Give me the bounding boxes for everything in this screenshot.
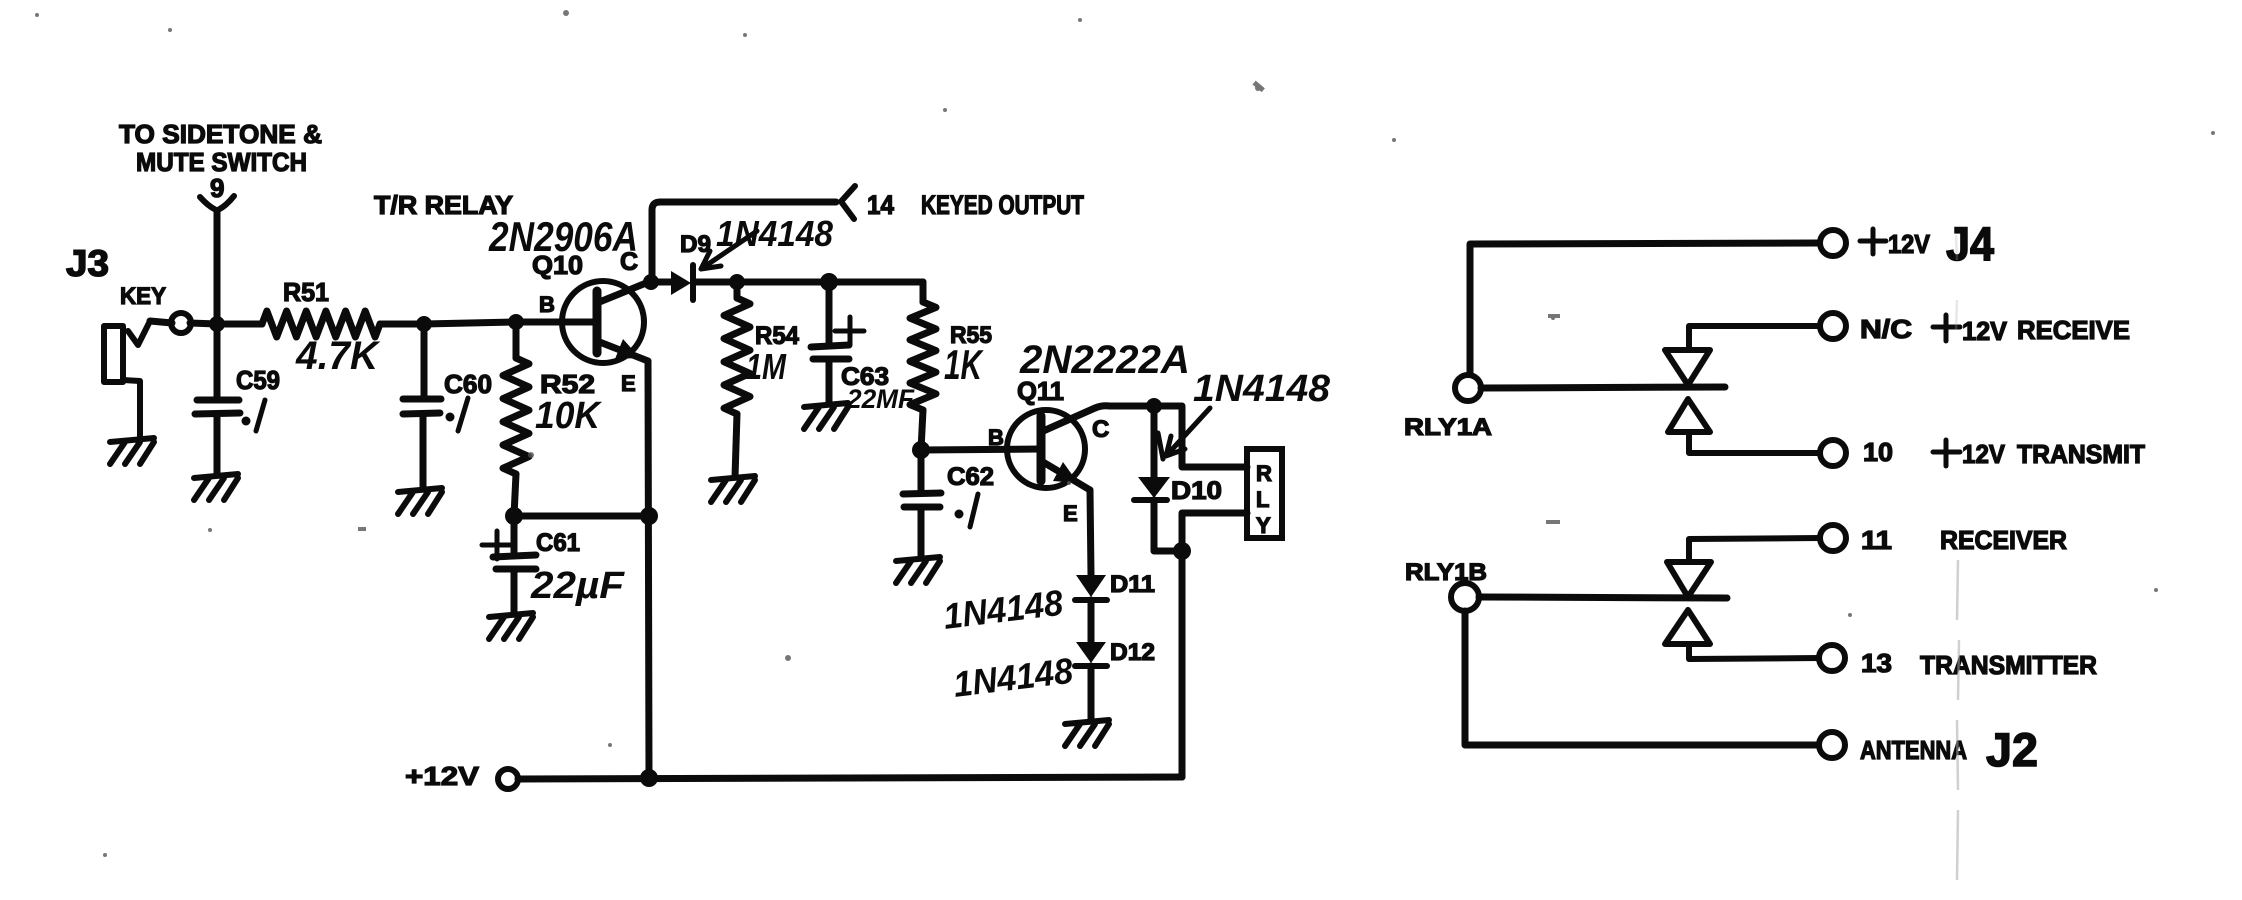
terminal circle 10 <box>1820 440 1846 466</box>
wire jack sleeve to ground <box>123 380 140 438</box>
wire D9 node to C63 and R55 <box>737 279 923 286</box>
capacitor C61 (electrolytic) <box>493 516 536 614</box>
svg-text:Y: Y <box>1256 513 1271 538</box>
svg-text:KEYED OUTPUT: KEYED OUTPUT <box>921 190 1084 220</box>
diode D11 <box>1075 571 1155 642</box>
svg-text:12V: 12V <box>1962 439 2006 469</box>
wire Q10 emitter down to +12V rail <box>648 361 649 778</box>
svg-text:J2: J2 <box>1986 723 2038 776</box>
svg-text:13: 13 <box>1861 648 1892 678</box>
node R54 junction <box>729 274 745 290</box>
svg-text:TO SIDETONE &: TO SIDETONE & <box>119 119 322 149</box>
relay contact RLY1B <box>1451 583 1479 611</box>
svg-text:B: B <box>539 292 555 317</box>
node rail emitter junction <box>640 769 658 787</box>
svg-text:2N2906A: 2N2906A <box>488 213 638 260</box>
wire node to C59 <box>214 324 221 399</box>
diode D9 <box>651 231 737 300</box>
resistor R54 <box>734 282 741 298</box>
terminal circle +12V <box>498 769 518 789</box>
svg-text:+12V: +12V <box>405 761 480 791</box>
svg-text:R51: R51 <box>283 277 329 307</box>
svg-text:B: B <box>988 425 1004 450</box>
svg-text:1K: 1K <box>944 341 984 388</box>
terminal circle +12V J4 <box>1820 230 1846 256</box>
svg-text:12V: 12V <box>1962 316 2008 346</box>
svg-text:4.7K: 4.7K <box>295 334 381 378</box>
ground (C63) <box>804 403 848 429</box>
plus sign (C61) <box>482 531 512 559</box>
svg-text:1M: 1M <box>746 346 787 387</box>
resistor R52 <box>513 322 520 358</box>
wire junction down to +12V rail <box>1179 551 1186 777</box>
node Q11 base junction <box>912 441 930 459</box>
node Q10 collector junction <box>643 274 659 290</box>
wire node to C60 <box>421 324 428 397</box>
connector 14 keyed output <box>841 186 855 219</box>
wire R51 to base node <box>380 322 597 324</box>
svg-text:11: 11 <box>1861 525 1892 555</box>
connector to sidetone (Y symbol) <box>200 196 234 210</box>
wire base to Q11 <box>921 449 1041 450</box>
svg-text:D12: D12 <box>1110 639 1155 666</box>
terminal circle 11 <box>1820 525 1846 551</box>
wire Q11 emitter to D11 <box>1090 490 1091 575</box>
svg-text:N/C: N/C <box>1860 314 1912 344</box>
ground (D12) <box>1065 720 1109 746</box>
relay contact RLY1A <box>1455 375 1481 401</box>
svg-text:D10: D10 <box>1171 477 1222 505</box>
wire transmitter terminal 13 <box>1689 644 1820 659</box>
annotation arrow (D9) <box>701 231 757 269</box>
svg-text:RECEIVER: RECEIVER <box>1940 525 2067 555</box>
wire +12V rail <box>518 777 1182 779</box>
svg-text:C: C <box>1092 416 1109 443</box>
terminal circle 13 <box>1819 645 1845 671</box>
node RLY bottom junction <box>1173 542 1191 560</box>
svg-text:J4: J4 <box>1946 217 1994 270</box>
terminal circle antenna <box>1819 732 1845 758</box>
node C60 junction <box>416 316 432 332</box>
ground (jack) <box>110 438 154 464</box>
svg-text:TRANSMITTER: TRANSMITTER <box>1920 650 2097 680</box>
svg-text:22µF: 22µF <box>530 565 626 607</box>
capacitor C59 <box>195 400 240 475</box>
svg-text:R: R <box>1256 461 1272 486</box>
diode D12 <box>1075 639 1155 721</box>
resistor R55 <box>920 282 927 302</box>
ground (R54) <box>711 476 755 502</box>
node D10 junction <box>1146 398 1162 414</box>
contact triangle N/C (RLY1A) <box>1665 350 1710 385</box>
wire receiver terminal 11 <box>1689 538 1820 562</box>
wire N/C terminal <box>1689 326 1820 350</box>
ground (C61) <box>489 613 533 639</box>
svg-text:C59: C59 <box>236 365 280 395</box>
transistor Q10 <box>532 248 651 396</box>
text TO SIDETONE & MUTE SWITCH <box>119 119 322 203</box>
svg-text:E: E <box>1063 501 1078 526</box>
wire RLY1B common <box>1479 597 1727 598</box>
wire keyed output <box>652 202 836 282</box>
node C63 junction <box>820 273 838 291</box>
svg-text:10: 10 <box>1863 437 1893 467</box>
contact triangle receiver (RLY1B) <box>1667 562 1711 597</box>
plus sign (C63) <box>835 317 864 345</box>
ground (C62) <box>896 557 940 583</box>
svg-text:C60: C60 <box>444 369 492 399</box>
wire C61 node to emitter line <box>514 513 649 520</box>
svg-text:RLY1B: RLY1B <box>1405 559 1487 586</box>
annotation arrow (D10) <box>1158 408 1210 459</box>
wire RLY1A common <box>1481 387 1725 388</box>
jack tip contact (check mark) <box>128 321 150 345</box>
wire J4 +12V feed <box>1470 243 1820 375</box>
contact triangle transmitter (RLY1B) <box>1665 610 1710 644</box>
node key junction <box>209 316 225 332</box>
svg-text:C61: C61 <box>536 529 580 557</box>
contact triangle transmit (RLY1A) <box>1668 399 1710 432</box>
svg-text:1N4148: 1N4148 <box>1193 368 1331 410</box>
svg-text:L: L <box>1256 487 1269 512</box>
wire Q11 collector to relay coil <box>1095 406 1247 467</box>
svg-text:14: 14 <box>867 190 894 220</box>
terminal circle N/C <box>1820 313 1846 339</box>
svg-text:TRANSMIT: TRANSMIT <box>2017 439 2145 469</box>
svg-text:RECEIVE: RECEIVE <box>2017 315 2130 345</box>
node emitter line junction <box>640 507 658 525</box>
relay coil box RLY <box>1247 449 1282 538</box>
label +12V J4 <box>1860 229 1886 254</box>
svg-text:22MF: 22MF <box>846 384 915 414</box>
node R52 junction <box>508 314 524 330</box>
wire RLY1B to antenna J2 <box>1465 611 1819 745</box>
transistor Q11 <box>988 376 1109 526</box>
capacitor C63 (electrolytic) <box>811 282 849 404</box>
svg-text:2N2222A: 2N2222A <box>1019 338 1190 382</box>
svg-text:10K: 10K <box>535 395 602 437</box>
wire key node to R51 <box>217 321 262 328</box>
value .1 (C62) <box>970 494 978 527</box>
svg-text:J3: J3 <box>66 243 109 284</box>
resistor R51 <box>262 311 380 337</box>
scan artifacts (decorative) <box>1956 235 1959 880</box>
wire sidetone stem down to key node <box>214 211 221 324</box>
svg-text:D11: D11 <box>1110 571 1155 598</box>
wire RLY coil bottom <box>1182 513 1247 551</box>
svg-text:RLY1A: RLY1A <box>1404 414 1492 441</box>
capacitor C62 <box>903 450 941 557</box>
value .1 (C59) <box>256 400 265 431</box>
capacitor C60 <box>403 399 441 489</box>
jack J3 body <box>104 326 123 382</box>
svg-text:ANTENNA: ANTENNA <box>1860 735 1967 765</box>
terminal circle KEY <box>171 313 191 333</box>
ground (C60) <box>398 488 442 514</box>
svg-text:12V: 12V <box>1888 229 1931 259</box>
wire transmit terminal 10 <box>1689 432 1820 453</box>
svg-text:9: 9 <box>210 173 224 203</box>
diode D10 <box>1134 406 1222 551</box>
ground (C59) <box>194 474 238 500</box>
svg-text:E: E <box>621 371 636 396</box>
wire terminal to node <box>150 321 217 324</box>
node C61 junction <box>505 507 523 525</box>
svg-text:KEY: KEY <box>120 283 166 310</box>
value .1 (C60) <box>458 398 468 431</box>
svg-text:C62: C62 <box>947 463 994 491</box>
